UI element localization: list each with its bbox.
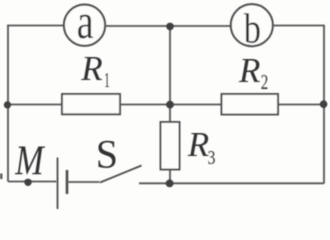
wire middle row center segment (120, 104, 222, 106)
wire middle row left segment (8, 104, 62, 106)
wire top-left horizontal (7, 25, 64, 27)
wire middle vertical upper (169, 26, 171, 122)
svg-text:R: R (80, 49, 102, 88)
wire top-right horizontal (273, 25, 324, 27)
svg-text:3: 3 (208, 146, 216, 168)
ammeter a (64, 0, 105, 49)
svg-text:R: R (238, 51, 260, 90)
node bottom-middle junction (166, 180, 174, 188)
wire bottom-left horizontal (8, 181, 57, 183)
svg-text:S: S (96, 131, 118, 176)
switch S blade (100, 166, 142, 183)
resistor R2 (222, 94, 279, 115)
node left junction (4, 101, 11, 108)
node middle junction (166, 101, 174, 109)
wire middle vertical lower (169, 170, 171, 184)
node battery terminal (24, 179, 31, 186)
svg-text:R: R (187, 125, 209, 164)
wire bottom-right horizontal (139, 182, 324, 184)
svg-text:a: a (77, 0, 94, 49)
wire battery-to-switch (68, 181, 100, 183)
resistor R1 (62, 94, 120, 114)
resistor R3 (161, 122, 180, 170)
svg-text:b: b (244, 7, 261, 53)
wire middle row right segment (278, 104, 324, 106)
battery M short plate (66, 170, 69, 194)
label S (96, 131, 118, 176)
ammeter b (231, 4, 273, 52)
battery M long plate (57, 158, 59, 210)
left edge scan artifact (0, 174, 3, 180)
svg-text:M: M (14, 138, 45, 184)
wire right vertical (323, 25, 325, 184)
node top-middle junction (166, 23, 174, 31)
label R1 (80, 49, 109, 92)
label R2 (238, 51, 268, 94)
wire left vertical (7, 25, 9, 182)
wire top-middle horizontal (106, 25, 232, 27)
svg-text:1: 1 (104, 68, 109, 92)
node right junction (320, 100, 328, 108)
label M (14, 138, 45, 184)
svg-text:2: 2 (261, 71, 269, 94)
label R3 (187, 125, 216, 168)
